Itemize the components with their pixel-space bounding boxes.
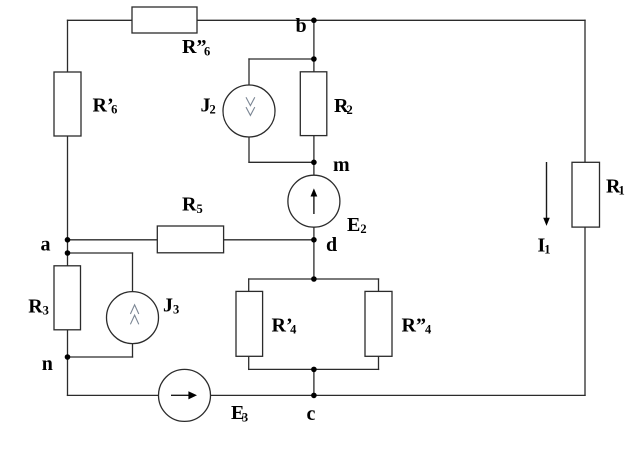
node a: [65, 237, 71, 243]
svg-text:a: a: [41, 233, 51, 255]
wire right vertical (R1 bottom to bottom corner): [584, 227, 586, 395]
wire node n to bottom-left corner: [67, 357, 69, 395]
wire left vertical (R'6 bottom to node a): [67, 136, 69, 240]
wire node a to node a2: [67, 240, 69, 253]
wire J2 bottom branch horizontal to node m: [249, 161, 314, 163]
resistor R'4 body: [236, 291, 263, 356]
wire parallel bottom bus: [249, 368, 379, 370]
resistor R1 body: [572, 162, 600, 227]
current source J3 circle: [107, 292, 159, 344]
wire right vertical (top corner to R1 top): [584, 20, 586, 162]
wire node a2 to J3 branch horizontal: [68, 252, 133, 254]
wire R5 right to node d: [224, 239, 314, 241]
wire R"4 top leg: [378, 279, 380, 291]
svg-text:m: m: [333, 154, 350, 176]
wire R2 bottom to node m: [313, 136, 315, 163]
wire E2 bottom to node d: [313, 227, 315, 240]
wire J3 branch vertical down to circle: [132, 253, 134, 292]
current arrow I1 (down): [543, 162, 550, 226]
wire top horizontal (R"6 to node b to top-right corner): [197, 19, 585, 21]
wire R'4 top leg: [248, 279, 250, 291]
wire J2 bottom branch vertical: [248, 137, 250, 162]
wire R3 bottom to node n: [67, 330, 69, 357]
wire parallel bottom junction to node c: [313, 369, 315, 395]
resistor R2 body: [300, 72, 327, 136]
wire junction j1 to R2 top: [313, 59, 315, 72]
current source J2 circle: [223, 85, 275, 137]
wire node b to junction j1: [313, 20, 315, 59]
wire bottom horizontal (E3 right to node c to bottom-right corner): [211, 394, 586, 396]
resistor R5 body: [157, 226, 223, 253]
svg-text:b: b: [296, 15, 307, 37]
voltage source E3 circle: [159, 369, 211, 421]
wire node a2 to R3 top: [67, 253, 69, 266]
J3 chevron arrows (up): [130, 305, 138, 314]
resistor R3 body: [54, 266, 81, 330]
resistor R"4 body: [365, 291, 392, 356]
wire bottom horizontal (corner to E3 left): [68, 394, 159, 396]
J2 chevron arrows (down): [246, 97, 255, 105]
wire top-left horizontal (corner to R"6): [68, 19, 133, 21]
node c: [311, 393, 317, 399]
svg-text:n: n: [42, 353, 53, 375]
wire R"4 bottom leg: [378, 356, 380, 369]
wire R'4 bottom leg: [248, 356, 250, 369]
E3 arrow (right): [171, 391, 197, 399]
voltage source E2 circle: [288, 175, 340, 227]
wire node a to R5 left: [68, 239, 158, 241]
wire node m to E2 top: [313, 162, 315, 175]
wire J2 top branch vertical: [248, 59, 250, 85]
wire node d to parallel top junction: [313, 240, 315, 279]
wire J3 circle bottom vertical: [132, 344, 134, 357]
svg-text:R”6: R”6: [182, 36, 210, 58]
node b: [311, 18, 317, 24]
wire left vertical (corner to R'6 top): [67, 20, 69, 72]
wire J2 top branch horizontal: [249, 58, 314, 60]
svg-text:d: d: [326, 234, 337, 256]
node junction j1 (below b): [311, 56, 317, 62]
wire J3 bottom horizontal to node n: [68, 356, 133, 358]
node m: [311, 160, 317, 166]
node junction parallel top: [311, 276, 317, 282]
resistor R"6 body: [132, 7, 197, 33]
E2 arrow (up): [311, 188, 318, 214]
resistor R'6 body: [54, 72, 81, 136]
node junction parallel bottom: [311, 367, 317, 373]
node n: [65, 354, 71, 360]
node a2 junction: [65, 250, 71, 256]
wire parallel top bus: [249, 278, 379, 280]
svg-text:c: c: [307, 403, 316, 425]
node d: [311, 237, 317, 243]
